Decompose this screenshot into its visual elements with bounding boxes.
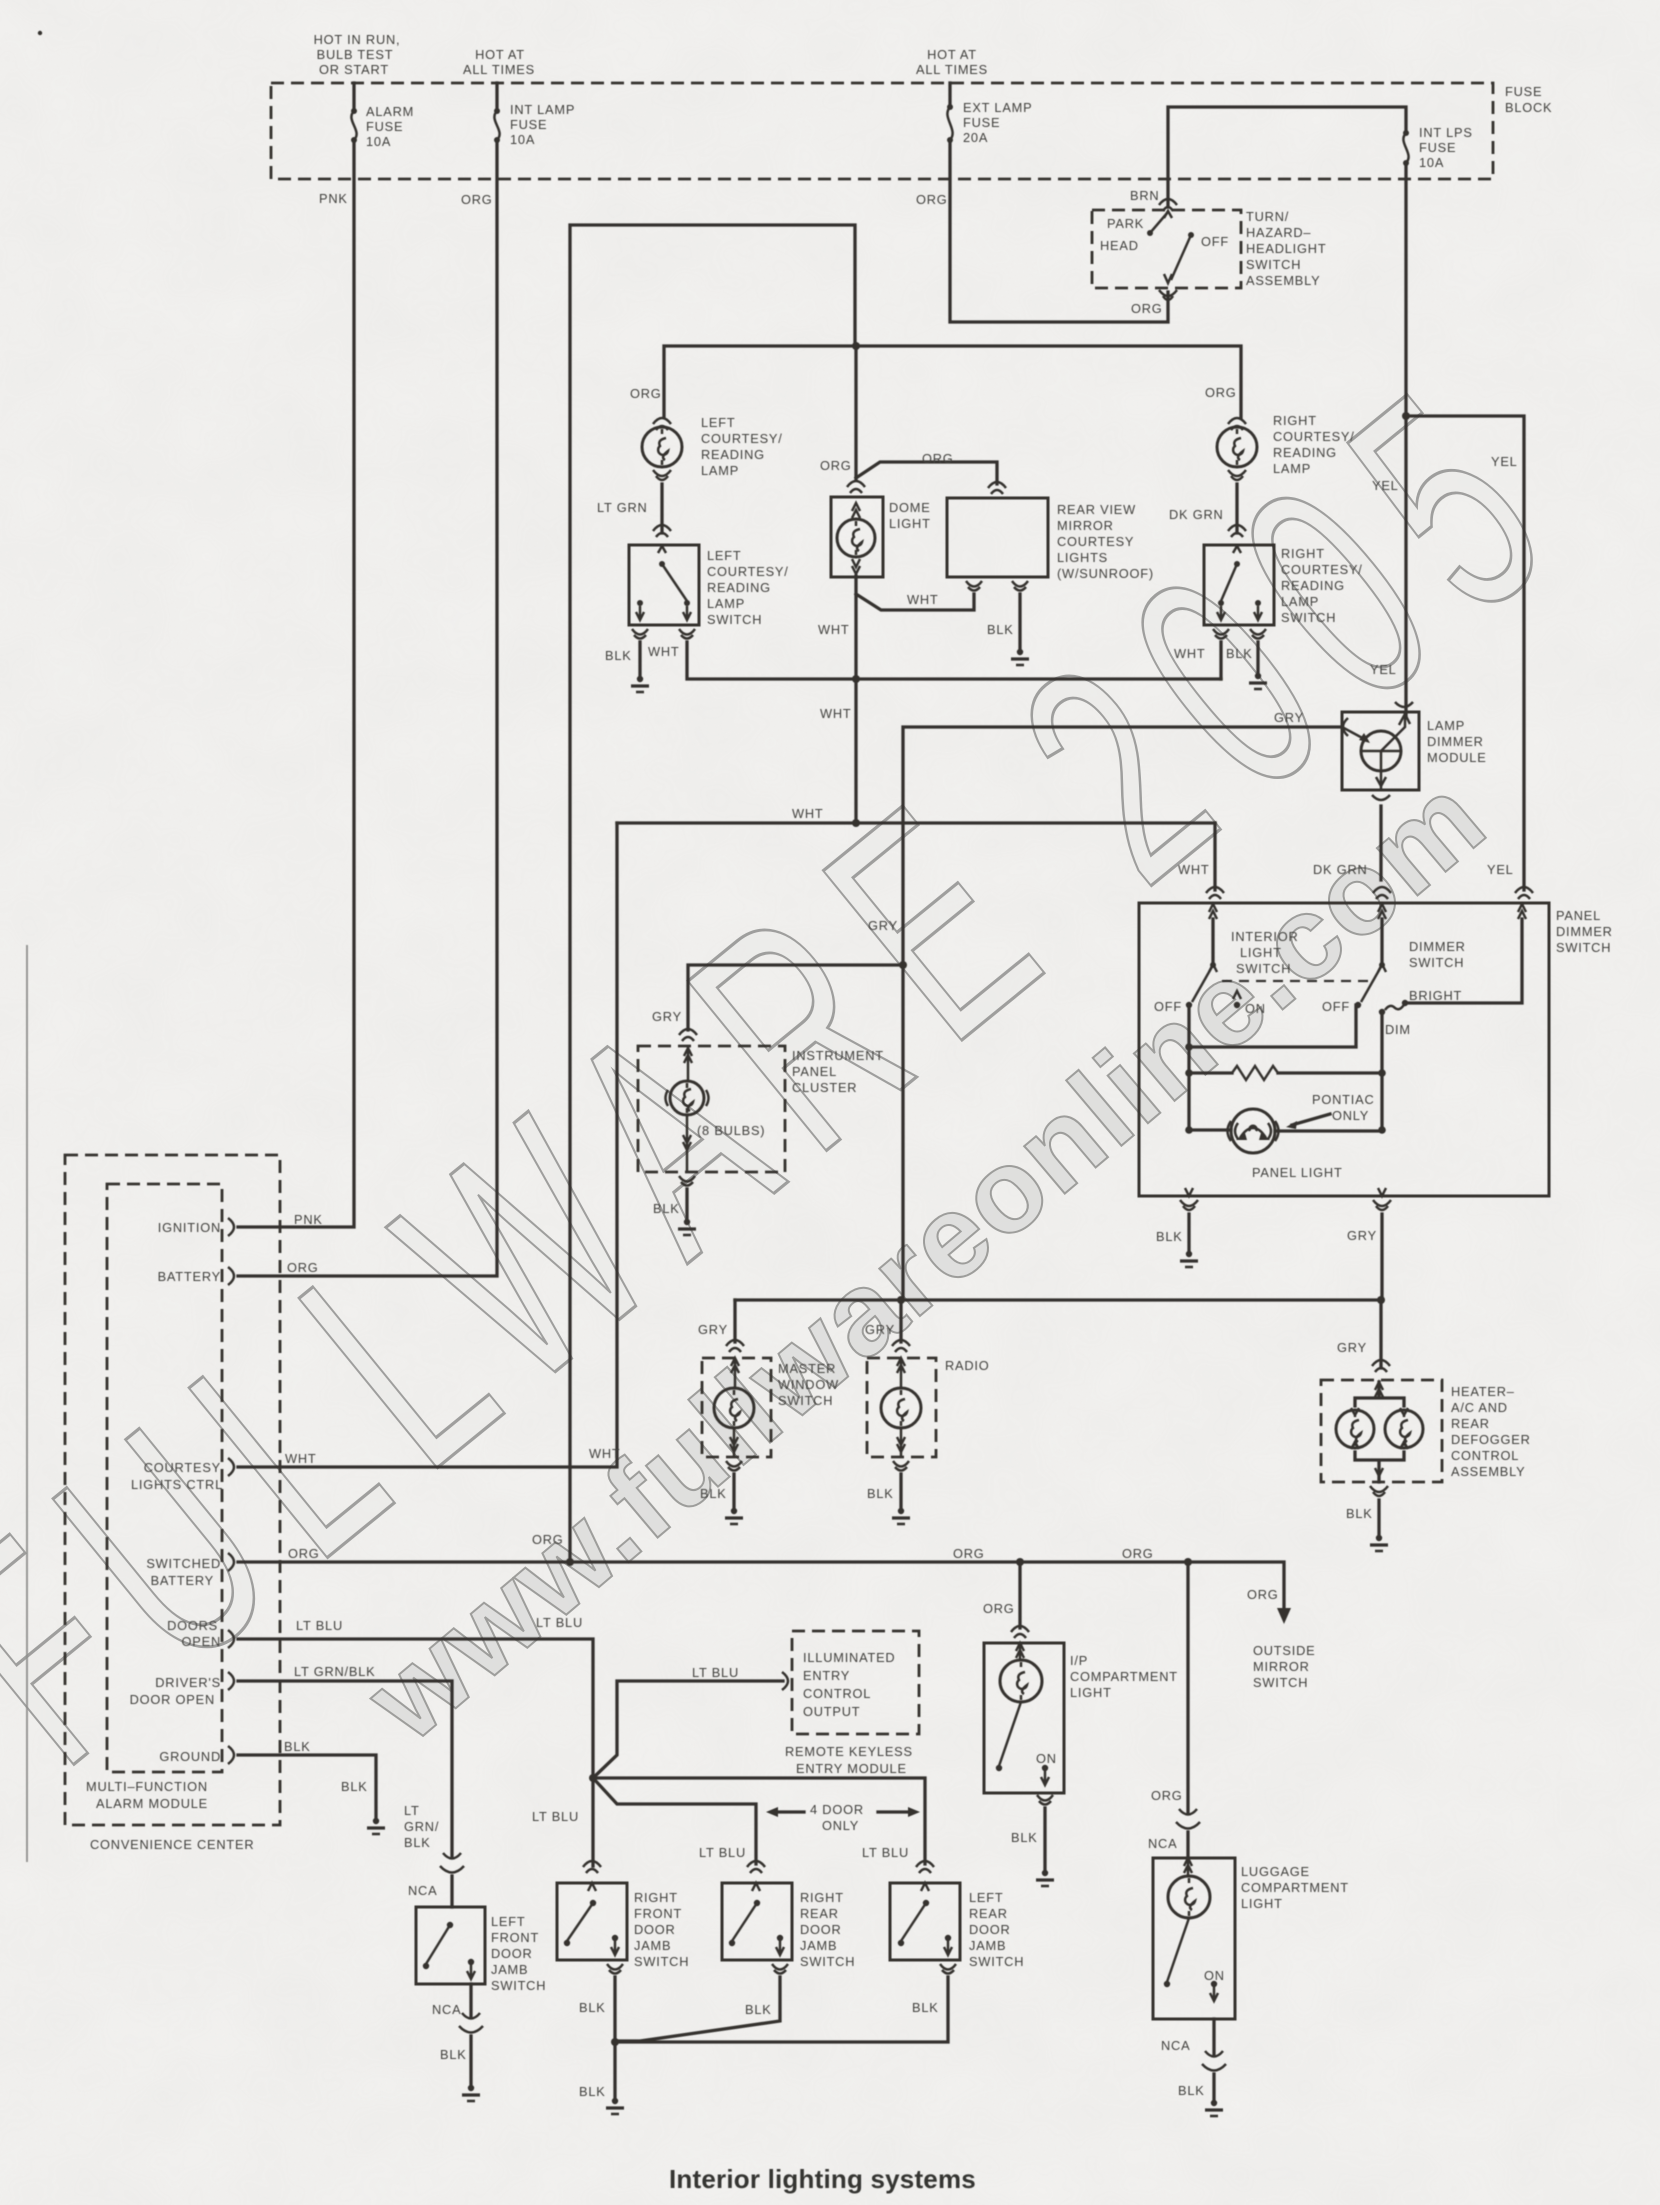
lamp radio (881, 1358, 921, 1457)
label EXT LAMP FUSE 20A (963, 100, 1032, 145)
svg-text:ALARM MODULE: ALARM MODULE (96, 1796, 208, 1811)
wire YEL branch to panel dimmer (1406, 416, 1524, 890)
label ORG mid rail (953, 1546, 985, 1561)
svg-text:BLK: BLK (1178, 2083, 1205, 2098)
wire left rear BLK (615, 1977, 948, 2042)
svg-text:NCA: NCA (1161, 2038, 1190, 2053)
svg-text:ON: ON (1036, 1751, 1057, 1766)
label BRN (1130, 188, 1159, 203)
svg-text:BLK: BLK (1011, 1830, 1038, 1845)
wire WHT rail upper (687, 642, 1221, 679)
svg-text:ORG: ORG (630, 386, 662, 401)
svg-text:COURTESY/: COURTESY/ (1281, 562, 1363, 577)
heater connector (1372, 1360, 1390, 1372)
label GRY panel dimmer (1347, 1228, 1377, 1243)
label RADIO (945, 1358, 990, 1373)
left switch connector bottom left (632, 629, 648, 639)
svg-text:WHT: WHT (907, 592, 939, 607)
svg-text:FUSE: FUSE (510, 117, 547, 132)
label INT LPS FUSE 10A (1419, 125, 1473, 170)
left switch connector bottom right (679, 629, 695, 639)
wire WHT to courtesy lights ctrl (238, 823, 617, 1467)
ground panel dimmer (1180, 1251, 1198, 1267)
svg-text:JAMB: JAMB (634, 1938, 671, 1953)
label (8 BULBS) (697, 1123, 765, 1138)
wire LT BLU doors open (238, 1639, 593, 1866)
lamp dome light (837, 519, 875, 557)
label LEFT COURTESY/READING LAMP SWITCH (707, 548, 789, 627)
svg-text:BLK: BLK (653, 1201, 680, 1216)
pin GROUND (159, 1746, 234, 1764)
label HEATER-A/C AND REAR DEFOGGER CONTROL ASSEMBLY (1451, 1384, 1531, 1479)
label ORG ip light (983, 1601, 1015, 1616)
wire GRY lamp dimmer to rail (903, 727, 1342, 1300)
dome light connector top (847, 481, 865, 518)
svg-text:OFF: OFF (1322, 999, 1350, 1014)
label ORG mirror spur (922, 451, 954, 466)
svg-text:LAMP: LAMP (1273, 461, 1311, 476)
svg-text:BLK: BLK (404, 1835, 431, 1850)
lamp panel light (1228, 1109, 1279, 1153)
left rear door jamb switch internals (898, 1883, 952, 1955)
ground alarm module (367, 1818, 385, 1834)
watermark www.fullwareonline.com (342, 751, 1510, 1767)
label ORG at junction 570 (532, 1532, 564, 1547)
label WHT at panel dimmer (1178, 862, 1210, 877)
lamp heater left (1336, 1408, 1374, 1449)
svg-text:CONTROL: CONTROL (803, 1686, 871, 1701)
left front door jamb switch box (416, 1907, 485, 1984)
dashed link between switches (1222, 980, 1368, 982)
svg-text:DOORS: DOORS (167, 1618, 218, 1633)
wire ORG ext lamp to headlight switch (950, 140, 1168, 322)
wire GRY panel dimmer down (1380, 1214, 1383, 1300)
svg-text:WHT: WHT (648, 644, 680, 659)
fuse INT LAMP FUSE 10A (494, 108, 500, 143)
right front door jamb switch internals (564, 1883, 619, 1955)
connector right rear jamb (747, 1861, 765, 1873)
master window connector (726, 1340, 744, 1352)
svg-text:REAR: REAR (800, 1906, 839, 1921)
svg-text:WHT: WHT (285, 1451, 317, 1466)
svg-text:LT BLU: LT BLU (692, 1665, 739, 1680)
wire BRN headlight switch to int lps fuse (1168, 107, 1406, 207)
wire right front BLK (613, 1977, 616, 2042)
label NCA drivers (408, 1883, 437, 1898)
svg-text:ALL TIMES: ALL TIMES (916, 62, 988, 77)
svg-text:SWITCH: SWITCH (1236, 961, 1291, 976)
arrow outside mirror feed (1277, 1608, 1291, 1624)
wire ORG spur to mirror (856, 462, 997, 484)
svg-text:GRY: GRY (1347, 1228, 1377, 1243)
label ON interior (1245, 1001, 1266, 1016)
svg-text:GRY: GRY (865, 1322, 895, 1337)
wire BLK heater (1377, 1500, 1380, 1534)
panel dimmer switch box (1139, 903, 1549, 1196)
junction courtesy rail (852, 342, 860, 350)
page border line left (26, 945, 28, 1862)
wire BLK ground module (238, 1755, 376, 1817)
junction ORG luggage (1184, 1558, 1192, 1566)
svg-text:RIGHT: RIGHT (1273, 413, 1317, 428)
wire GRY to radio (899, 1300, 902, 1342)
wire panel light left (1189, 1128, 1231, 1131)
connector break NCA luggage (1176, 1809, 1200, 1829)
svg-text:SWITCH: SWITCH (969, 1954, 1024, 1969)
wire ORG battery feed (238, 140, 497, 1276)
label WHT left switch (648, 644, 680, 659)
wire BLK junction to ground (613, 2042, 616, 2097)
feed label HOT IN RUN, BULB TEST OR START (314, 32, 401, 77)
svg-text:REMOTE KEYLESS: REMOTE KEYLESS (785, 1744, 913, 1759)
dimmer switch internals (1355, 919, 1408, 1015)
svg-text:DIMMER: DIMMER (1556, 924, 1613, 939)
svg-text:LIGHTS: LIGHTS (1057, 550, 1108, 565)
fuse INT LPS FUSE 10A (1403, 130, 1409, 166)
left rear door jamb switch box (890, 1883, 960, 1960)
label INT LAMP FUSE 10A (510, 102, 575, 147)
svg-text:LUGGAGE: LUGGAGE (1241, 1864, 1310, 1879)
wire left front BLK (469, 2036, 472, 2084)
right lamp switch internals (1217, 546, 1262, 620)
panel dimmer YEL connector (1515, 887, 1533, 919)
left courtesy lamp connector top (653, 418, 671, 430)
svg-text:GROUND: GROUND (159, 1749, 221, 1764)
svg-text:10A: 10A (366, 134, 391, 149)
svg-text:LIGHTS CTRL: LIGHTS CTRL (131, 1477, 223, 1492)
multi-function alarm module dashed box (107, 1184, 222, 1772)
svg-text:LAMP: LAMP (1427, 718, 1465, 733)
master window connector bottom (726, 1461, 742, 1471)
right courtesy lamp connector top (1228, 418, 1246, 430)
wire GRY to master window switch (733, 1300, 736, 1342)
junction WHT upper rail (852, 675, 860, 683)
mirror connector bottom left (966, 581, 982, 591)
wire BLK panel dimmer (1187, 1214, 1190, 1250)
svg-text:WHT: WHT (1174, 646, 1206, 661)
svg-text:OR START: OR START (319, 62, 389, 77)
svg-text:FUSE: FUSE (366, 119, 403, 134)
wire BLK mirror to ground (1018, 594, 1021, 648)
label ALARM FUSE 10A (366, 104, 414, 149)
label GRY at lamp dimmer (1274, 710, 1304, 725)
label LT BLU at corner (536, 1615, 583, 1630)
svg-text:PANEL LIGHT: PANEL LIGHT (1252, 1165, 1343, 1180)
svg-text:NCA: NCA (408, 1883, 437, 1898)
right lamp switch connector (1228, 525, 1246, 537)
svg-text:20A: 20A (963, 130, 988, 145)
resistor R1 (1189, 1066, 1382, 1080)
svg-text:ORG: ORG (953, 1546, 985, 1561)
svg-text:COMPARTMENT: COMPARTMENT (1070, 1669, 1178, 1684)
convenience center dashed box (65, 1155, 280, 1825)
svg-text:INTERIOR: INTERIOR (1231, 929, 1299, 944)
junction yel branch (1402, 412, 1410, 420)
svg-text:MASTER: MASTER (778, 1361, 836, 1376)
svg-text:4 DOOR: 4 DOOR (810, 1802, 864, 1817)
label GRY at cluster (652, 1009, 682, 1024)
right courtesy lamp connector bottom (1228, 470, 1246, 480)
wire LT BLU to left rear (593, 1778, 925, 1864)
label LEFT REAR DOOR JAMB SWITCH (969, 1890, 1024, 1969)
connector right front jamb (583, 1861, 601, 1873)
wire LT BLU to right rear (593, 1778, 756, 1864)
svg-text:ASSEMBLY: ASSEMBLY (1246, 273, 1320, 288)
label BLK right switch (1226, 646, 1253, 661)
svg-text:ORG: ORG (922, 451, 954, 466)
lamp master window switch (714, 1358, 754, 1457)
wire interior switch feedthrough (1187, 1005, 1190, 1130)
label LT GRN (597, 500, 648, 515)
panel dimmer WHT connector (1206, 887, 1224, 919)
svg-text:BLOCK: BLOCK (1505, 100, 1552, 115)
watermark FULLWARE 2005 (0, 311, 1626, 1828)
lamp i/p compartment (1000, 1643, 1042, 1702)
label ORG under ext fuse (916, 192, 948, 207)
svg-text:DIMMER: DIMMER (1409, 939, 1466, 954)
label RIGHT COURTESY/READING LAMP (1273, 413, 1355, 476)
label BLK left switch (605, 648, 632, 663)
svg-text:PANEL: PANEL (1556, 908, 1601, 923)
svg-text:DOOR: DOOR (969, 1922, 1011, 1937)
label LT BLU entry (692, 1665, 739, 1680)
pin DRIVER'S DOOR OPEN (130, 1672, 234, 1707)
label ORG right rail (1122, 1546, 1154, 1561)
label ORG at headlight switch bottom (1131, 301, 1163, 316)
label PANEL DIMMER SWITCH (1556, 908, 1613, 955)
label DOME LIGHT (889, 500, 931, 531)
wire ext lamp fuse feed (948, 83, 951, 107)
svg-text:ON: ON (1204, 1968, 1225, 1983)
wire BLK radio (899, 1474, 902, 1507)
wire into left front door jamb (450, 1876, 453, 1907)
junction BLK (611, 2038, 619, 2046)
svg-text:I/P: I/P (1070, 1653, 1088, 1668)
svg-text:GRN/: GRN/ (404, 1819, 439, 1834)
svg-text:DK GRN: DK GRN (1169, 507, 1224, 522)
wire into luggage light (1186, 1832, 1189, 1858)
svg-text:Interior lighting systems: Interior lighting systems (669, 2164, 976, 2194)
label TURN/HAZARD-HEADLIGHT SWITCH ASSEMBLY (1246, 209, 1326, 288)
label ORG dome (820, 458, 852, 473)
junction ORG ip light (1016, 1558, 1024, 1566)
svg-text:REAR: REAR (969, 1906, 1008, 1921)
svg-text:PNK: PNK (294, 1212, 323, 1227)
svg-text:COURTESY/: COURTESY/ (1273, 429, 1355, 444)
mirror connector bottom right (1012, 581, 1028, 591)
svg-text:DOOR: DOOR (800, 1922, 842, 1937)
svg-text:IGNITION: IGNITION (158, 1220, 221, 1235)
svg-text:ILLUMINATED: ILLUMINATED (803, 1650, 895, 1665)
label PANEL LIGHT (1252, 1165, 1343, 1180)
svg-text:DOOR: DOOR (491, 1946, 533, 1961)
right switch connector bottom left (1213, 629, 1229, 639)
label NCA below luggage (1161, 2038, 1190, 2053)
headlight switch connector top (1159, 199, 1177, 211)
svg-text:INT LPS: INT LPS (1419, 125, 1473, 140)
pin IGNITION (158, 1218, 234, 1236)
wire left front to connector (469, 1984, 472, 2016)
wire int lamp fuse feed (495, 83, 498, 111)
panel dimmer bottom left connector (1180, 1188, 1198, 1210)
svg-text:BRIGHT: BRIGHT (1409, 988, 1462, 1003)
label OUTSIDE MIRROR SWITCH (1253, 1643, 1315, 1690)
svg-text:SWITCH: SWITCH (707, 612, 762, 627)
connector break below luggage (1202, 2051, 1226, 2071)
cluster connector bottom (679, 1176, 695, 1186)
svg-text:ENTRY MODULE: ENTRY MODULE (796, 1761, 907, 1776)
wire YEL int lps fuse down (1404, 163, 1407, 718)
lamp heater right (1385, 1408, 1423, 1449)
svg-text:COURTESY: COURTESY (1057, 534, 1134, 549)
wire right rear BLK (615, 1977, 780, 2041)
wire ORG bridge rail (570, 225, 855, 1561)
cluster connector top (679, 1029, 697, 1041)
svg-text:BLK: BLK (987, 622, 1014, 637)
label GRY mid (868, 918, 898, 933)
label BLK mirror (987, 622, 1014, 637)
ground ip light (1036, 1870, 1054, 1886)
pin DOORS OPEN (167, 1618, 234, 1649)
label WHT at ctrl corner (589, 1446, 621, 1461)
label CONVENIENCE CENTER (90, 1837, 254, 1852)
svg-text:HEAD: HEAD (1100, 238, 1139, 253)
label BLK cluster (653, 1201, 680, 1216)
pin COURTESY LIGHTS CTRL (131, 1458, 234, 1492)
wire GRY rail (735, 1298, 1381, 1301)
svg-text:LT BLU: LT BLU (862, 1845, 909, 1860)
svg-text:A/C AND: A/C AND (1451, 1400, 1508, 1415)
illuminated entry control output dashed box (792, 1631, 919, 1734)
label 4 DOOR ONLY (810, 1802, 864, 1833)
svg-text:BULB TEST: BULB TEST (317, 47, 394, 62)
svg-text:OUTPUT: OUTPUT (803, 1704, 860, 1719)
label BLK panel dimmer (1156, 1229, 1183, 1244)
left courtesy lamp connector bottom (653, 470, 671, 480)
svg-text:LAMP: LAMP (707, 596, 745, 611)
svg-text:BLK: BLK (912, 2000, 939, 2015)
svg-text:BATTERY: BATTERY (158, 1269, 221, 1284)
speck top left (38, 31, 42, 35)
svg-text:BLK: BLK (605, 648, 632, 663)
right front door jamb switch box (557, 1883, 627, 1960)
svg-text:BRN: BRN (1130, 188, 1159, 203)
svg-text:HOT AT: HOT AT (927, 47, 977, 62)
svg-text:BLK: BLK (1226, 646, 1253, 661)
transistor Q1 lamp dimmer (1342, 712, 1410, 790)
label BLK left rear (912, 2000, 939, 2015)
svg-text:LIGHT: LIGHT (1240, 945, 1282, 960)
label MASTER WINDOW SWITCH (778, 1361, 839, 1408)
wire LT GRN/BLK drivers door (238, 1681, 452, 1857)
lamp dimmer connector bottom (1372, 795, 1390, 800)
cluster bulb feed arrows (684, 1046, 692, 1081)
junction resistor right (1378, 1069, 1386, 1077)
label NCA luggage (1148, 1836, 1177, 1851)
label BLK radio (867, 1486, 894, 1501)
svg-text:LEFT: LEFT (969, 1890, 1004, 1905)
wire DK GRN lamp dimmer to panel dimmer (1379, 806, 1382, 880)
svg-text:NCA: NCA (1148, 1836, 1177, 1851)
svg-text:GRY: GRY (868, 918, 898, 933)
lamp luggage compartment (1168, 1858, 1210, 1918)
connector break left front (459, 2013, 483, 2033)
svg-text:NCA: NCA (432, 2002, 461, 2017)
wire ORG to ip compartment light (1018, 1562, 1021, 1628)
wire WHT mid vertical (854, 679, 857, 823)
svg-text:READING: READING (1273, 445, 1337, 460)
right front bottom connector (607, 1964, 623, 1974)
feed label HOT AT ALL TIMES (left) (463, 47, 535, 77)
label BLK module 2 (341, 1779, 368, 1794)
connector ip light (1011, 1626, 1029, 1638)
label BLK master window (700, 1486, 727, 1501)
label YEL above panel dimmer (1487, 862, 1514, 877)
wire WHT dome to rail and mirror (856, 576, 974, 679)
svg-text:LT GRN/BLK: LT GRN/BLK (294, 1664, 376, 1679)
svg-text:FUSE: FUSE (1505, 84, 1542, 99)
ip light bottom connector (1037, 1795, 1053, 1805)
i/p light switch internals (996, 1702, 1049, 1785)
label I/P COMPARTMENT LIGHT (1070, 1653, 1178, 1700)
label LT BLU left rear (862, 1845, 909, 1860)
wire right switch WHT to rail (1219, 642, 1222, 679)
svg-text:LIGHT: LIGHT (1070, 1685, 1112, 1700)
cluster bulb bottom arrows (683, 1115, 691, 1172)
svg-text:DOOR: DOOR (634, 1922, 676, 1937)
svg-text:REAR VIEW: REAR VIEW (1057, 502, 1136, 517)
label ON luggage (1204, 1968, 1225, 1983)
svg-text:ORG: ORG (1205, 385, 1237, 400)
label INTERIOR LIGHT SWITCH (1231, 929, 1299, 976)
svg-text:COURTESY: COURTESY (144, 1460, 221, 1475)
svg-text:LT: LT (404, 1803, 420, 1818)
svg-text:ORG: ORG (983, 1601, 1015, 1616)
svg-text:BLK: BLK (1346, 1506, 1373, 1521)
svg-text:HAZARD–: HAZARD– (1246, 225, 1311, 240)
svg-text:ENTRY: ENTRY (803, 1668, 850, 1683)
label WHT at module (285, 1451, 317, 1466)
svg-text:LT GRN: LT GRN (597, 500, 648, 515)
label REMOTE KEYLESS ENTRY MODULE (785, 1744, 913, 1776)
lamp instrument cluster bulbs (666, 1081, 709, 1115)
interior light switch internals (1186, 919, 1241, 1008)
svg-text:SWITCH: SWITCH (1253, 1675, 1308, 1690)
junction switched battery x570 (566, 1558, 574, 1566)
svg-text:ONLY: ONLY (822, 1818, 859, 1833)
label PARK (1107, 216, 1144, 231)
pin BATTERY (158, 1267, 234, 1285)
svg-text:CONVENIENCE CENTER: CONVENIENCE CENTER (90, 1837, 254, 1852)
label BRIGHT (1409, 988, 1462, 1003)
svg-text:FRONT: FRONT (491, 1930, 539, 1945)
arrow 4 door right (878, 1807, 920, 1817)
turn/hazard-headlight switch assembly box (1092, 210, 1241, 288)
svg-text:INT LAMP: INT LAMP (510, 102, 575, 117)
junction LT BLU (589, 1774, 597, 1782)
svg-text:FUSE: FUSE (1419, 140, 1456, 155)
label LUGGAGE COMPARTMENT LIGHT (1241, 1864, 1349, 1911)
svg-text:OUTSIDE: OUTSIDE (1253, 1643, 1315, 1658)
svg-text:(W/SUNROOF): (W/SUNROOF) (1057, 566, 1154, 581)
svg-text:SWITCH: SWITCH (778, 1393, 833, 1408)
label LAMP DIMMER MODULE (1427, 718, 1487, 765)
label WHT lower rail (792, 806, 824, 821)
svg-text:ORG: ORG (1151, 1788, 1183, 1803)
junction feed 2 (1185, 1069, 1193, 1077)
label ORG (461, 192, 493, 207)
svg-text:YEL: YEL (1372, 478, 1399, 493)
